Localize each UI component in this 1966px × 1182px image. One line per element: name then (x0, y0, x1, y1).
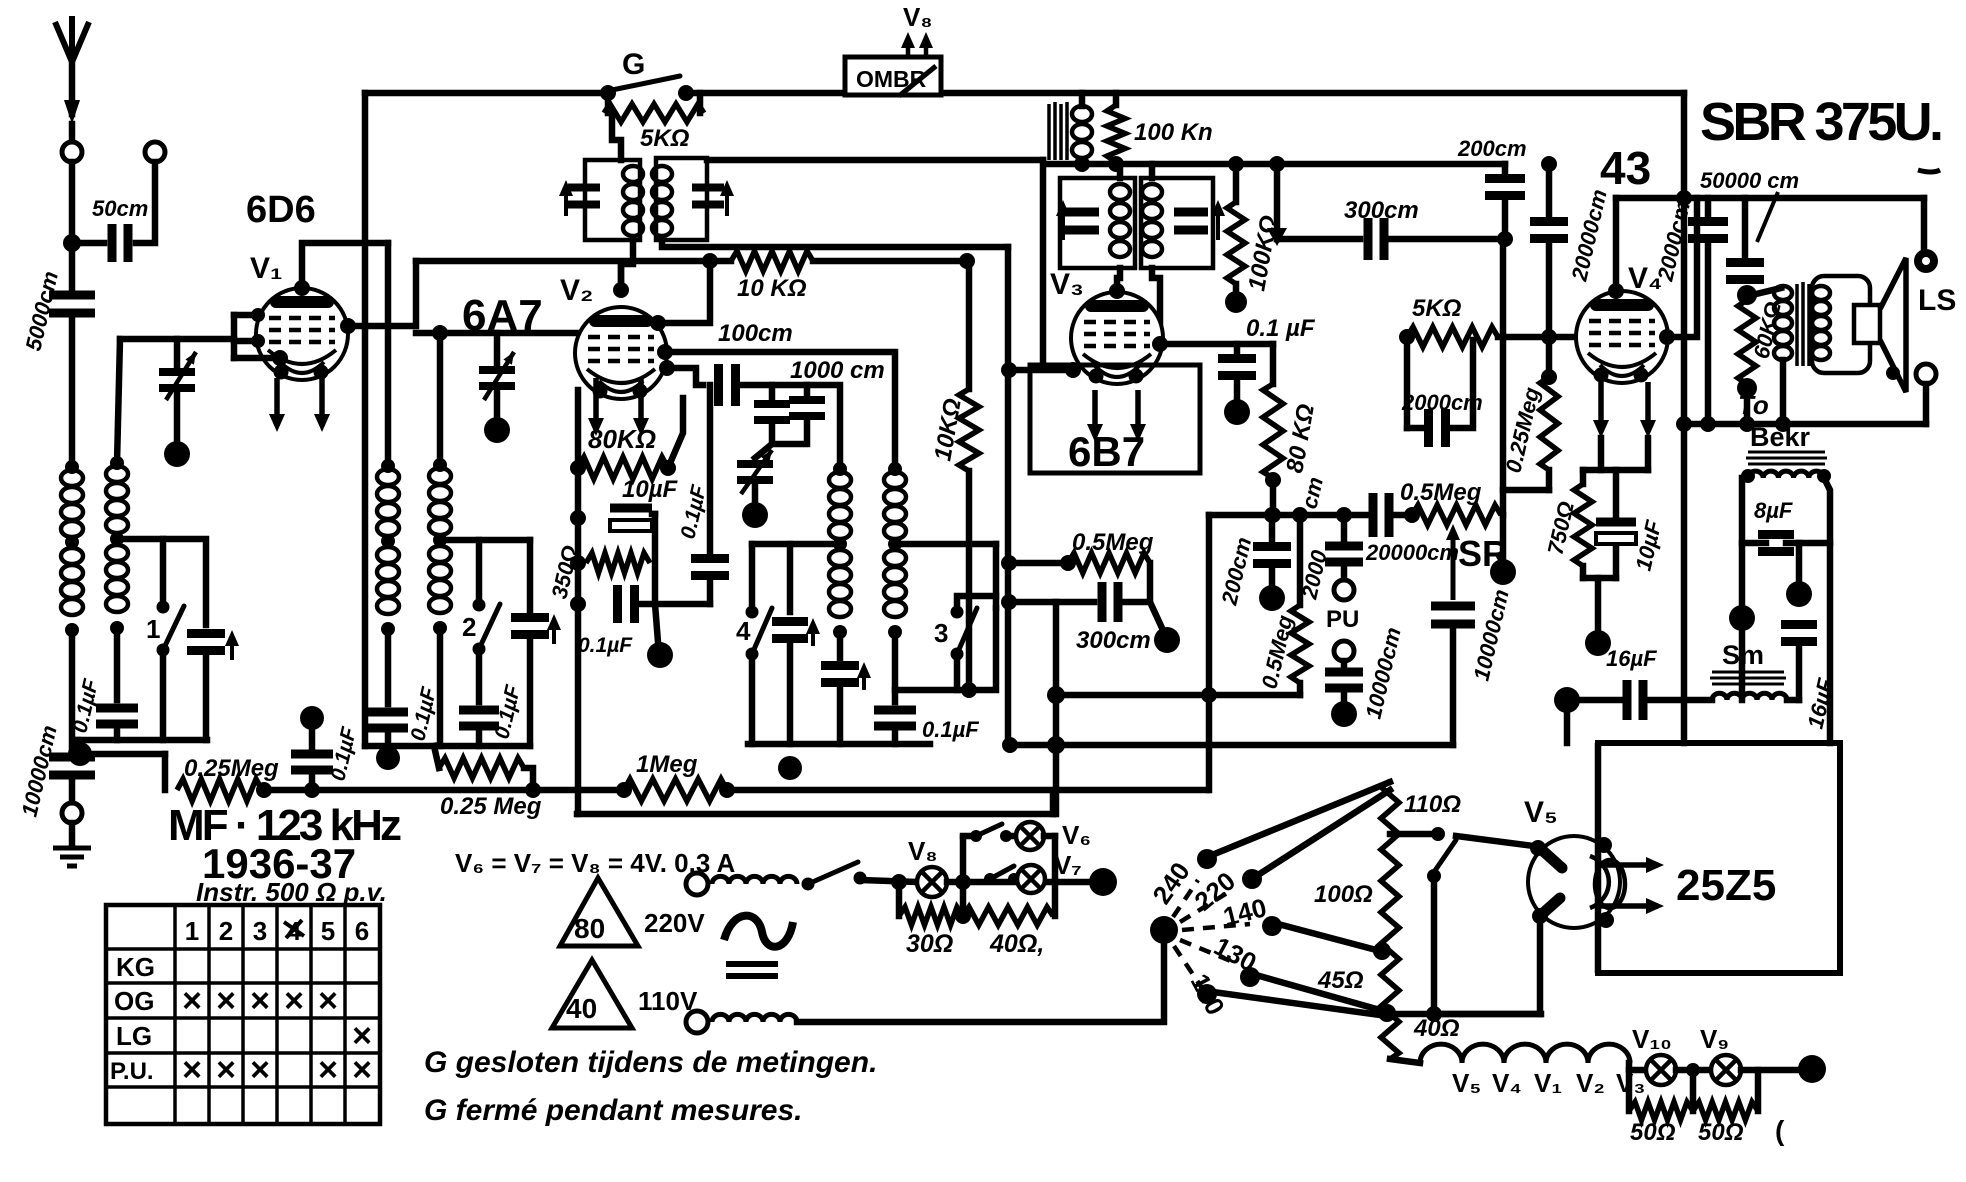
resistor 0.25Meg B (439, 758, 524, 778)
capacitor 0.1uF V3 (1218, 359, 1256, 376)
junction 1708-424 (1700, 416, 1716, 432)
V1 left box a (234, 312, 258, 319)
box OMBR (845, 57, 941, 95)
resistor 80K ohm (578, 457, 668, 479)
tick IF1 right (720, 180, 734, 216)
pot right hook (1503, 490, 1549, 515)
V8 arrow 1 (901, 32, 915, 56)
choke Bekr (1748, 471, 1824, 478)
switch G right hook (697, 93, 704, 113)
bus2 hook up (1050, 792, 1057, 814)
junction 100K-164 (1108, 156, 1124, 172)
v5 to selector line (1434, 1011, 1540, 1018)
svg-text:V₂: V₂ (1576, 1068, 1605, 1098)
switch G contact (678, 85, 694, 101)
SR blob stub (1500, 515, 1507, 560)
junction 1056-745 (1047, 736, 1065, 754)
padder link A (772, 418, 807, 444)
grid cap down (707, 578, 714, 604)
10Kv column (966, 261, 973, 389)
svg-text:100Ω: 100Ω (1314, 881, 1373, 908)
wire 5K to IF1 (612, 113, 621, 160)
50ohm mid drop (1690, 1070, 1697, 1111)
wire L3 bottom down (437, 628, 444, 746)
V3 pin arrow 1 (1087, 390, 1103, 442)
svg-text:0.25 Meg: 0.25 Meg (440, 793, 542, 820)
svg-text:G fermé pendant mesures.: G fermé pendant mesures. (424, 1094, 802, 1127)
cap200 stub (1269, 515, 1276, 540)
resistor 750 ohm V4 (1574, 484, 1592, 566)
junction L4 mid (381, 534, 395, 548)
coil L1b (61, 548, 83, 564)
V4 right pin (1659, 329, 1675, 345)
blob V7 output (1089, 868, 1117, 896)
capacitor 200cm 43 (1485, 179, 1525, 196)
svg-text:×: × (284, 982, 304, 1020)
V1 pin arrow 2 (314, 378, 330, 432)
box IF1 secondary (656, 158, 707, 240)
junction L5 top (833, 462, 847, 476)
L6 bottom down (892, 632, 899, 702)
V2 top stub (618, 264, 625, 290)
svg-text:V₁: V₁ (250, 252, 282, 285)
y515 line (1209, 512, 1366, 519)
riser 0.25meg (162, 754, 169, 790)
junction 0.5megv top (1292, 507, 1308, 523)
right tie column (652, 514, 659, 604)
coil IF2 secondary (1142, 184, 1162, 200)
blob V4 cathode (1585, 630, 1611, 656)
V4 plate up (1667, 198, 1697, 337)
Bekr left drop (1739, 478, 1746, 606)
IF2 secondary top (1149, 164, 1156, 178)
wire V1 box left lead (120, 336, 234, 343)
svg-text:3: 3 (253, 916, 267, 946)
AC choke 2 (712, 1014, 797, 1022)
0.25B left hook (434, 746, 439, 768)
blob padder (742, 502, 768, 528)
2000cm43 down (1546, 240, 1553, 375)
box IF1 primary (585, 160, 640, 240)
AC switch contact (854, 872, 867, 885)
V1 top cap junction (294, 280, 310, 296)
switch2 stem (476, 540, 483, 601)
junction 5K left (1399, 329, 1415, 345)
padder trimmer down (752, 484, 759, 502)
bus2 (577, 811, 1053, 818)
antenna terminal A1 (62, 142, 82, 162)
svg-text:Instr. 500 Ω p.v.: Instr. 500 Ω p.v. (196, 877, 387, 907)
bus grid line left (416, 258, 731, 265)
cap V3 down (1234, 377, 1241, 400)
wire cap to bottom rail (114, 726, 121, 740)
padder stub A (769, 385, 776, 398)
10uF top stub (1613, 470, 1620, 516)
selector contact 140 (1262, 916, 1282, 936)
svg-text:20000cm: 20000cm (1365, 540, 1459, 565)
10uF bottom stub (1613, 549, 1620, 578)
wire ant terminal A2 down (136, 162, 155, 243)
resistor 50 ohm A (1629, 1102, 1693, 1120)
x1209 column (1206, 515, 1213, 695)
osc wire top (665, 352, 895, 466)
200cm stub bottom (1502, 197, 1509, 239)
choke Sm (1712, 693, 1787, 700)
bottom rail left (75, 737, 207, 744)
svg-text:80: 80 (574, 913, 605, 944)
resistor 60K (1738, 300, 1756, 384)
capacitor 16uF left (1627, 680, 1643, 720)
blob 200cm (1259, 585, 1285, 611)
selector contact 220 (1242, 869, 1262, 889)
junction 0.25A right (256, 782, 272, 798)
wire L3 mid tap (440, 537, 530, 544)
pu stub4 (1341, 690, 1348, 702)
wire 100cm to coil (739, 385, 840, 466)
16uF right down (1796, 643, 1803, 700)
switch mains lever (1434, 840, 1456, 872)
svg-text:LS: LS (1918, 284, 1956, 317)
svg-text:Bekr: Bekr (1750, 422, 1811, 452)
svg-text:×: × (182, 1051, 202, 1089)
V4 cathode rail bottom (1583, 575, 1616, 582)
resistor 50 ohm B (1693, 1102, 1758, 1120)
svg-text:V₇: V₇ (1054, 850, 1082, 880)
left bus vertical (362, 93, 369, 746)
switch 1 pivot (157, 644, 170, 657)
Bekr right drop (1824, 478, 1830, 743)
wire L1 bottom down (69, 630, 76, 752)
junction 1009-602 (1001, 594, 1017, 610)
padder stub B (804, 385, 811, 394)
SR wiper arrow (1446, 524, 1460, 600)
terminal PU 1 (1334, 580, 1354, 600)
junction pot left (1404, 507, 1420, 523)
svg-text:2: 2 (462, 612, 476, 642)
V8 to V6V7 block (947, 879, 1090, 886)
blob end filament (1798, 1055, 1826, 1083)
IF2 primary to V3 top (1117, 268, 1120, 290)
resistor 100K vertical (1227, 202, 1245, 284)
speaker driver pole (1854, 305, 1880, 343)
Sm right wire (1787, 697, 1799, 704)
svg-text:×: × (216, 982, 236, 1020)
0.5megv stem (1297, 515, 1304, 605)
switch 3 lever (957, 608, 977, 654)
switch mains pivot (1427, 869, 1441, 883)
AC sine symbol (724, 916, 793, 947)
svg-text:V₅: V₅ (1524, 796, 1558, 829)
switch mains down (1431, 876, 1438, 1014)
svg-text:V₄: V₄ (1492, 1068, 1522, 1098)
y690 line (895, 608, 996, 690)
resistor 5K 43 (1407, 327, 1498, 347)
x1056 column (1053, 602, 1060, 814)
bus grid line right (813, 258, 969, 265)
resistor 350 ohm (586, 553, 650, 573)
AC line 2 (797, 938, 1164, 1022)
cap sw2 stub (476, 728, 483, 746)
triangle 80 (560, 878, 638, 946)
svg-text:×: × (352, 1051, 372, 1089)
switch V7 pivot (984, 873, 996, 885)
capacitor padder B (789, 400, 825, 416)
junction coil L2 top (110, 456, 124, 470)
lamp link (1676, 1067, 1711, 1074)
V3 pin arrow 2 (1130, 390, 1146, 442)
cap200 down (1269, 565, 1276, 586)
junction 5K-1549 (1541, 329, 1557, 345)
ground symbol (53, 848, 91, 866)
trimmer cap padder (737, 464, 773, 480)
junction arrow det (1267, 228, 1287, 246)
tick cap osc (857, 662, 871, 690)
junction 200cm-239 (1497, 231, 1513, 247)
switch 1 lever (163, 606, 184, 650)
100K top stub (1113, 93, 1120, 105)
capacitor 8uF (1758, 535, 1794, 552)
junction plate bus (702, 253, 718, 269)
coil L6a (884, 472, 906, 488)
junction coil-164 (1074, 156, 1090, 172)
blob trimmer 6A7 (484, 417, 510, 443)
switch V7 lever (990, 866, 1014, 879)
coil L6b (884, 550, 906, 566)
switch2 down (476, 653, 483, 702)
to primary top (1752, 288, 1781, 295)
pu stub1 (1341, 515, 1348, 540)
junction L5 mid (833, 537, 847, 551)
svg-text:×: × (352, 1017, 372, 1055)
capacitor 2000cm loop (1429, 409, 1446, 447)
80K riser (1270, 344, 1277, 384)
wire V1 top cap up (302, 243, 388, 288)
switch4 stem (749, 544, 756, 608)
svg-text:×: × (250, 1051, 270, 1089)
junction L4 top (381, 459, 395, 473)
capacitor osc mid (772, 622, 808, 639)
blob osc rail (778, 756, 802, 780)
svg-text:V₅: V₅ (1452, 1068, 1481, 1098)
grid column x710 (707, 385, 714, 556)
LS bottom hook (1923, 384, 1930, 424)
resistor 0.25Meg A (177, 779, 262, 801)
wire to 100cm cap (667, 368, 703, 385)
wire ant terminal A1 down (69, 162, 76, 290)
svg-text:6D6: 6D6 (246, 189, 316, 231)
cap312 stub (309, 726, 316, 748)
switch 2 pivot (473, 643, 486, 656)
wire 140 to 110R mid (1278, 924, 1384, 952)
V5 pin bottom left (1532, 908, 1548, 924)
tick IF1 left (559, 180, 573, 216)
switch 4 contact (746, 606, 759, 619)
primary bottom down (1780, 360, 1787, 424)
V4 pin1 to rail (1598, 438, 1605, 470)
junction L6 mid (888, 537, 902, 551)
wire 240 to 110R top (1212, 782, 1390, 855)
resistor 30 ohm (899, 907, 963, 925)
V3 right wire (1160, 341, 1273, 348)
cap x530 down (527, 636, 534, 746)
junction L3 top (433, 458, 447, 472)
trimmer 6A7 stem (494, 333, 501, 364)
trimmer bottom wire (174, 390, 181, 442)
svg-text:220V: 220V (644, 908, 705, 938)
svg-text:25Z5: 25Z5 (1676, 861, 1776, 910)
capacitor 10uF electrolytic (610, 504, 652, 513)
capacitor 10000cm SR (1431, 606, 1475, 624)
300cm avc left (1009, 599, 1094, 606)
junction y745 left (1002, 737, 1018, 753)
capacitor IF1 secondary (692, 188, 724, 205)
top bus left segment (365, 90, 606, 97)
8uF left wire (1742, 540, 1766, 547)
resistor 0.5Meg vertical (1291, 605, 1309, 683)
coil L1a (61, 470, 83, 486)
blob under cap L4 (376, 746, 400, 770)
0.5megv bottom (1297, 683, 1304, 695)
cap osc mid stem (787, 544, 794, 612)
switch 4 pivot (746, 648, 759, 661)
16uF right stem (1796, 543, 1803, 584)
junction 80K left (570, 460, 586, 476)
V2 pin arrow 1 (588, 378, 604, 436)
svg-text:V₁₀: V₁₀ (1632, 1024, 1672, 1054)
svg-text:40Ω,: 40Ω, (989, 930, 1044, 958)
osc rail (748, 741, 930, 748)
resistor 0.25Meg 43 (1540, 377, 1558, 470)
x1684 column (1681, 93, 1688, 743)
coil L4b (377, 547, 399, 563)
junction 1056-695 (1047, 686, 1065, 704)
V6 row left (963, 833, 972, 840)
antenna mast wire (69, 60, 76, 114)
capacitor 16uF right (1781, 625, 1817, 642)
resistor 110 ohm dropper (1381, 781, 1399, 1059)
tube V5 25Z5 (1528, 836, 1620, 928)
filament chain V5V4V1V2V3 (1420, 1044, 1630, 1063)
Bekr left drop 2 (1739, 618, 1746, 700)
AC switch pivot (802, 878, 815, 891)
capacitor padding ant (187, 634, 225, 651)
svg-text:×: × (216, 1051, 236, 1089)
junction L3-333 (432, 325, 448, 341)
potentiometer 0.5Meg SR (1412, 505, 1501, 525)
wire 220 to 110R top (1258, 790, 1390, 875)
svg-text:SBR 375U.: SBR 375U. (1700, 92, 1944, 152)
svg-text:1Meg: 1Meg (636, 751, 698, 778)
V1 left box b (234, 338, 258, 345)
svg-text:6: 6 (355, 916, 369, 946)
junction L5 bottom (833, 625, 847, 639)
switch 3 contact (951, 606, 964, 619)
8uF right wire (1786, 540, 1830, 547)
svg-text:40: 40 (566, 993, 597, 1024)
capacitor 0.1uF L4 (368, 712, 408, 728)
blob 300cm avc (1154, 627, 1180, 653)
junction 10Kv bottom (961, 682, 977, 698)
100Kv top (1233, 164, 1240, 202)
coil IF1 secondary (652, 166, 672, 182)
antenna terminal A2 (145, 142, 165, 162)
capacitor 5000cm (49, 295, 95, 313)
tick IF2 left (1056, 200, 1070, 240)
core hash IF osc (1049, 102, 1067, 160)
junction 1684-424 (1676, 416, 1692, 432)
300cm right wire (1390, 236, 1505, 243)
lamp V8 (917, 867, 947, 897)
x1708 stem (1705, 198, 1712, 214)
V2 pin arrow 2 (633, 378, 649, 436)
tick cap osc mid (806, 618, 820, 646)
y1014 line (1387, 1011, 1541, 1018)
coil To secondary (1812, 286, 1830, 300)
capacitor 50000cm (1726, 263, 1764, 280)
svg-text:45Ω: 45Ω (1317, 967, 1364, 994)
capacitor IF1 primary (568, 188, 600, 205)
resistor 0.5Meg avc (1068, 553, 1150, 573)
junction coil L1 top (65, 460, 79, 474)
lamp V9 (1711, 1055, 1741, 1085)
V5 pin top left (1530, 840, 1546, 856)
junction L3 bottom (433, 621, 447, 635)
junction L3 mid (433, 533, 447, 547)
capacitor padder A (754, 404, 790, 420)
Sm left stub down (1564, 700, 1571, 743)
2000cm loop left (1404, 337, 1411, 428)
coil IF1 primary (623, 166, 643, 182)
V5 cathode bar 2 (1542, 898, 1560, 914)
vertical to 6B7 box (1040, 160, 1047, 365)
5K to V4 (1498, 334, 1576, 341)
0.25meg43 bottom (1546, 470, 1553, 490)
cap osc mid down (787, 640, 794, 744)
blob 100Kv bottom (1225, 291, 1247, 313)
svg-text:G gesloten tijdens de metingen: G gesloten tijdens de metingen. (424, 1046, 877, 1079)
wire L2 bottom to cap (114, 628, 121, 700)
svg-text:6A7: 6A7 (462, 291, 543, 340)
capacitor 10000cm (49, 757, 95, 775)
junction 1meg right (719, 782, 735, 798)
junction x963 (955, 874, 971, 890)
terminal ground (62, 803, 82, 823)
osc mid tie left (752, 541, 840, 548)
V1 left box to cathode (234, 355, 282, 362)
junction det-164 (1269, 156, 1285, 172)
coil L2b (106, 545, 128, 561)
junction 1meg left (616, 782, 632, 798)
Sm line mid (1648, 697, 1712, 704)
y198 line (1616, 195, 1924, 202)
tube V1 6D6 (256, 288, 348, 380)
switch V6 contact (1000, 830, 1012, 842)
core hash Bekr (1746, 452, 1827, 464)
60K to y424 (1744, 388, 1751, 424)
svg-text:300cm: 300cm (1076, 627, 1151, 654)
lamp V6 (1016, 822, 1044, 850)
junction 30-40 (955, 908, 971, 924)
svg-text:V₈: V₈ (908, 836, 938, 866)
selector common blob (1150, 916, 1178, 944)
trimmer top wire (174, 339, 181, 372)
right corner x996 (993, 544, 1000, 608)
coil L2a (106, 466, 128, 482)
box IF2 secondary (1141, 178, 1213, 268)
pointer 50000cm (1757, 192, 1778, 242)
svg-text:To: To (1738, 390, 1769, 420)
100Kv bottom stub (1233, 284, 1240, 296)
